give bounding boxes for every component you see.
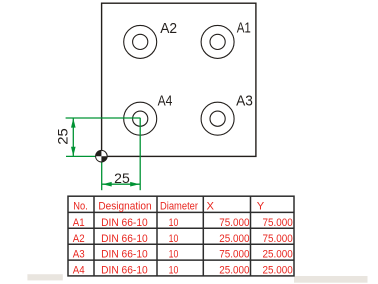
vertical dimension arrow up xyxy=(71,118,76,127)
svg-text:DIN 66-10: DIN 66-10 xyxy=(101,233,148,245)
svg-text:A3: A3 xyxy=(73,249,85,261)
table row line 4 xyxy=(68,259,294,261)
svg-text:Diameter: Diameter xyxy=(160,200,198,212)
hole A4 inner circle xyxy=(133,111,148,126)
svg-text:25.000: 25.000 xyxy=(219,233,249,245)
table column line 1 xyxy=(93,196,95,276)
vertical dimension extension line top (to A4 center) xyxy=(66,117,141,119)
hole A2 inner circle xyxy=(133,34,148,49)
svg-text:25.000: 25.000 xyxy=(263,249,293,261)
hole A3 inner circle xyxy=(210,111,225,126)
svg-text:Designation: Designation xyxy=(98,200,151,212)
origin symbol xyxy=(96,150,108,162)
svg-text:DIN 66-10: DIN 66-10 xyxy=(101,249,148,261)
vertical dimension extension line bottom (to origin) xyxy=(66,155,96,157)
svg-text:10: 10 xyxy=(169,249,179,261)
svg-text:A1: A1 xyxy=(237,19,251,36)
table row line 1 xyxy=(68,211,294,213)
svg-text:X: X xyxy=(207,200,215,212)
plate outline xyxy=(102,3,256,156)
table column line 2 xyxy=(156,196,158,276)
vertical dimension arrow down xyxy=(71,147,76,156)
table outer border xyxy=(68,196,294,276)
svg-text:25.000: 25.000 xyxy=(263,265,293,277)
gray strip bottom-right xyxy=(294,276,368,283)
hole A1 outer circle xyxy=(201,25,234,58)
table row line 2 xyxy=(68,227,294,229)
svg-text:25.000: 25.000 xyxy=(219,265,249,277)
hole A1 inner circle xyxy=(210,34,225,49)
horizontal dimension extension line right (from A4 center) xyxy=(139,118,141,190)
svg-text:75.000: 75.000 xyxy=(219,249,249,261)
svg-text:10: 10 xyxy=(169,265,179,277)
svg-text:75.000: 75.000 xyxy=(263,217,293,229)
svg-text:A4: A4 xyxy=(73,265,85,277)
table text xyxy=(73,200,293,276)
table column line 3 xyxy=(202,196,204,276)
svg-text:A4: A4 xyxy=(158,94,173,110)
svg-text:75.000: 75.000 xyxy=(263,233,293,245)
vertical dimension line xyxy=(72,118,74,156)
svg-text:A1: A1 xyxy=(73,217,85,229)
svg-text:A2: A2 xyxy=(73,233,85,245)
table grid xyxy=(68,196,294,276)
gray taskbar fragment bottom-left xyxy=(27,274,62,280)
svg-text:25: 25 xyxy=(114,170,130,186)
svg-text:75.000: 75.000 xyxy=(219,217,249,229)
horizontal dimension arrow right xyxy=(130,182,139,187)
svg-text:A2: A2 xyxy=(160,20,177,37)
svg-text:10: 10 xyxy=(169,217,179,229)
horizontal dimension extension line left (below origin) xyxy=(101,162,103,191)
hole A2 outer circle xyxy=(124,25,157,58)
svg-text:A3: A3 xyxy=(236,94,253,110)
svg-text:No.: No. xyxy=(73,200,88,212)
hole A3 outer circle xyxy=(201,102,234,135)
hole A4 outer circle xyxy=(124,102,157,135)
svg-text:Y: Y xyxy=(257,200,265,212)
table row line 3 xyxy=(68,243,294,245)
svg-text:DIN 66-10: DIN 66-10 xyxy=(101,217,148,229)
svg-text:DIN 66-10: DIN 66-10 xyxy=(101,265,148,277)
table column line 4 xyxy=(250,196,252,276)
svg-text:10: 10 xyxy=(169,233,179,245)
svg-text:25: 25 xyxy=(56,128,71,145)
horizontal dimension line xyxy=(102,183,141,185)
horizontal dimension arrow left xyxy=(102,182,111,187)
